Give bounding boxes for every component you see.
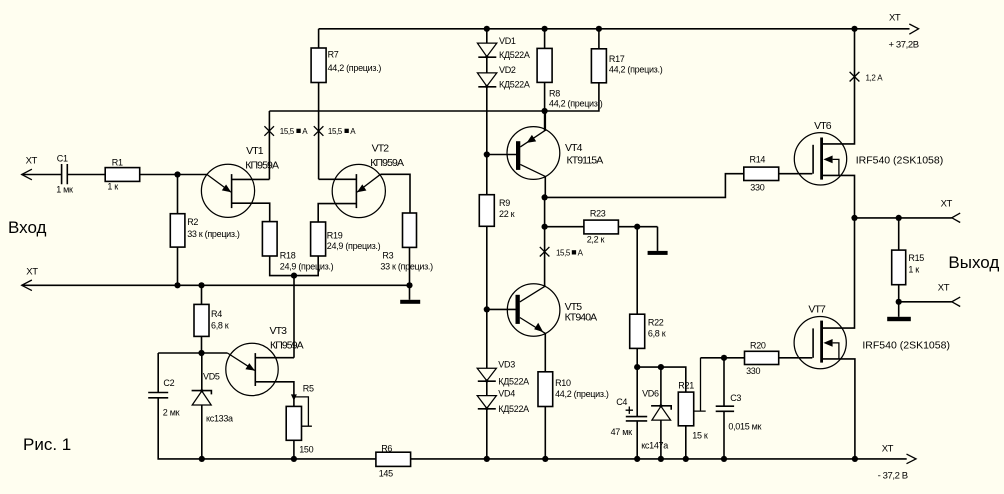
wire output xyxy=(855,217,952,219)
wire VD2 to VT4 base xyxy=(486,87,488,195)
resistor R21 xyxy=(678,392,693,426)
diode VD3 xyxy=(477,368,496,381)
svg-text:15,5: 15,5 xyxy=(556,249,571,258)
svg-text:VD1: VD1 xyxy=(499,36,516,46)
ground mid xyxy=(657,227,659,251)
svg-text:24,9 (прециз.): 24,9 (прециз.) xyxy=(280,262,334,272)
node R10-rail xyxy=(542,456,548,462)
resistor R14 xyxy=(744,167,779,180)
node R8-wire111 xyxy=(542,108,548,114)
wire R20 to VT7 gate xyxy=(779,357,813,359)
svg-text:VT2: VT2 xyxy=(372,143,390,155)
wire R7 top xyxy=(318,29,320,48)
svg-text:IRF540 (2SK1058): IRF540 (2SK1058) xyxy=(856,155,944,167)
svg-text:Рис. 1: Рис. 1 xyxy=(23,435,71,454)
svg-text:15,5: 15,5 xyxy=(280,127,295,136)
wire mid to VT3 drain xyxy=(293,276,295,358)
node R4-VT3gate xyxy=(198,350,204,356)
node VD6-rail xyxy=(658,456,664,462)
transistor VT3 KP959A xyxy=(226,343,278,395)
node VT4 collector xyxy=(542,194,548,200)
XT terminal +37V arrow xyxy=(909,24,918,34)
wire VT1 drain riser xyxy=(268,111,270,179)
resistor R22 xyxy=(630,314,645,348)
XT output fork bottom xyxy=(952,297,960,306)
svg-text:24,9 (прециз.): 24,9 (прециз.) xyxy=(327,241,381,251)
XT lower input arrow xyxy=(22,280,32,291)
svg-text:VT6: VT6 xyxy=(814,120,832,132)
svg-text:C1: C1 xyxy=(57,154,68,164)
node rail-R17 xyxy=(596,26,602,32)
svg-text:R23: R23 xyxy=(590,209,606,219)
svg-text:XT: XT xyxy=(941,199,953,210)
svg-text:Выход: Выход xyxy=(948,253,999,272)
svg-text:150: 150 xyxy=(299,444,313,454)
measure point x VT1 xyxy=(264,126,274,136)
node C3-rail xyxy=(721,456,727,462)
svg-text:- 37,2 В: - 37,2 В xyxy=(878,471,908,482)
wire VD3-VD4 xyxy=(486,381,488,395)
resistor R8 xyxy=(544,29,546,49)
wire R18/R19 bottoms U xyxy=(270,256,319,276)
wire output lower xyxy=(899,301,952,303)
capacitor C3 xyxy=(723,358,725,406)
node R23 left xyxy=(542,224,548,230)
svg-text:Вход: Вход xyxy=(8,218,47,237)
wire +37V top rail xyxy=(319,28,910,30)
node R15 top xyxy=(896,215,902,221)
node R1-R2 xyxy=(174,171,180,177)
svg-text:R8: R8 xyxy=(549,89,560,99)
svg-text:XT: XT xyxy=(889,12,901,23)
resistor R4 xyxy=(201,285,203,304)
diode VD2 xyxy=(477,73,496,86)
svg-text:R6: R6 xyxy=(381,444,392,454)
svg-text:C4: C4 xyxy=(616,397,627,407)
svg-text:VD3: VD3 xyxy=(498,360,515,370)
node R18R19 mid xyxy=(291,273,297,279)
wire R17 bottom to wire111 xyxy=(269,83,599,111)
svg-text:330: 330 xyxy=(750,183,764,193)
node VT7 source rail xyxy=(852,456,858,462)
svg-text:1,2 А: 1,2 А xyxy=(866,74,884,83)
wire R22 top xyxy=(636,227,638,315)
svg-text:XT: XT xyxy=(938,282,950,293)
node rail-R8 xyxy=(542,26,548,32)
svg-text:R15: R15 xyxy=(908,253,924,263)
node VD5-rail xyxy=(199,456,205,462)
svg-text:44,2 (прециз.): 44,2 (прециз.) xyxy=(549,99,603,109)
node R3-bus xyxy=(406,282,412,288)
svg-text:XT: XT xyxy=(26,267,38,278)
resistor R6 xyxy=(376,452,411,466)
svg-text:145: 145 xyxy=(379,469,393,479)
XT output fork top xyxy=(952,213,960,222)
svg-text:33 к (прециз.): 33 к (прециз.) xyxy=(187,229,240,239)
node R5-rail xyxy=(291,456,297,462)
svg-text:33 к (прециз.): 33 к (прециз.) xyxy=(380,262,433,272)
resistor R15 xyxy=(898,218,900,250)
svg-text:VD6: VD6 xyxy=(642,388,659,398)
svg-text:XT: XT xyxy=(882,443,894,454)
wire R8 bottom xyxy=(544,82,546,130)
node R2-bus xyxy=(174,282,180,288)
wire R14 to VT6 gate xyxy=(779,173,813,175)
resistor R2 xyxy=(177,175,179,214)
svg-text:КП959А: КП959А xyxy=(370,157,404,169)
wire bottom rail xyxy=(376,458,907,460)
node output top xyxy=(851,215,857,221)
wire R7 to VT2 drain xyxy=(318,83,320,180)
svg-text:15 к: 15 к xyxy=(692,431,708,441)
svg-text:C3: C3 xyxy=(730,393,741,403)
svg-text:R14: R14 xyxy=(750,155,766,165)
measure point x VT2 xyxy=(314,126,324,136)
resistor R20 xyxy=(745,351,779,364)
svg-text:R19: R19 xyxy=(327,231,343,241)
trimmer R5 wiper arrow xyxy=(291,394,297,400)
resistor R3 xyxy=(403,213,417,247)
diode VD1 xyxy=(477,43,496,57)
wire to R21 xyxy=(637,367,686,392)
svg-text:VT7: VT7 xyxy=(808,303,826,315)
capacitor C4 xyxy=(626,417,647,421)
transistor VT2 KP959A xyxy=(332,164,385,217)
svg-text:R2: R2 xyxy=(187,217,198,227)
node VT4 base xyxy=(484,151,490,157)
svg-text:0,015 мк: 0,015 мк xyxy=(728,422,761,432)
wire collector row to R14 riser xyxy=(545,174,744,198)
svg-text:КП959А: КП959А xyxy=(245,160,279,172)
svg-text:КТ9115А: КТ9115А xyxy=(567,155,604,167)
svg-text:кс147а: кс147а xyxy=(641,441,668,451)
svg-text:КП959А: КП959А xyxy=(270,340,304,352)
svg-text:КД522А: КД522А xyxy=(499,80,530,90)
wire VT4c down xyxy=(544,197,546,285)
svg-text:330: 330 xyxy=(746,366,760,376)
resistor R7 xyxy=(311,48,326,83)
svg-text:2 мк: 2 мк xyxy=(163,408,180,418)
resistor R5 xyxy=(286,406,301,440)
zener VD5 ks133a xyxy=(201,353,203,390)
svg-text:IRF540 (2SK1058): IRF540 (2SK1058) xyxy=(862,339,950,351)
svg-text:VT1: VT1 xyxy=(246,145,264,157)
wire C1 to R1 xyxy=(67,174,105,176)
wire C2 branch xyxy=(158,352,227,354)
svg-text:15,5: 15,5 xyxy=(328,127,343,136)
node rail-VD1 xyxy=(484,26,490,32)
resistor R17 xyxy=(598,29,600,49)
node VD6 top xyxy=(658,364,664,370)
resistor R18 xyxy=(262,222,277,256)
wire ground bus input xyxy=(22,284,410,286)
ground R3 xyxy=(409,285,411,300)
transistor VT5 KT940A xyxy=(507,284,560,337)
svg-text:R3: R3 xyxy=(382,251,393,261)
wire VD4 to rail xyxy=(486,409,488,459)
transistor VT1 KP959A xyxy=(201,164,254,217)
svg-text:1 мк: 1 мк xyxy=(56,185,73,195)
node VD4-rail xyxy=(484,456,490,462)
svg-text:VT4: VT4 xyxy=(565,142,583,154)
node R23-R22 xyxy=(634,224,640,230)
svg-text:R18: R18 xyxy=(280,251,296,261)
svg-text:КТ940А: КТ940А xyxy=(565,312,598,324)
wire base to VD3 xyxy=(486,309,488,368)
svg-text:КД522А: КД522А xyxy=(498,377,529,387)
svg-text:кс133а: кс133а xyxy=(206,413,233,423)
svg-text:R10: R10 xyxy=(555,378,571,388)
node R22-C4 xyxy=(634,364,640,370)
svg-text:R1: R1 xyxy=(112,158,123,168)
svg-text:47 мк: 47 мк xyxy=(611,427,632,437)
wire R9 to VT5 base xyxy=(486,226,488,309)
svg-text:6,8 к: 6,8 к xyxy=(211,321,229,331)
transistor VT4 KT9115A xyxy=(507,127,560,180)
svg-text:6,8 к: 6,8 к xyxy=(648,329,666,339)
resistor R10 xyxy=(538,372,553,407)
transistor VT7 IRF540 xyxy=(794,317,846,369)
resistor R1 xyxy=(105,168,140,182)
node VT5 base xyxy=(484,306,490,312)
svg-text:КД522А: КД522А xyxy=(499,50,530,60)
svg-text:VD2: VD2 xyxy=(499,65,516,75)
svg-text:VD5: VD5 xyxy=(203,372,220,382)
svg-text:VT3: VT3 xyxy=(270,325,288,337)
svg-text:R17: R17 xyxy=(609,54,625,64)
capacitor C2 xyxy=(148,393,168,398)
XT -37V arrow xyxy=(907,454,917,464)
node R21-rail xyxy=(683,456,689,462)
transistor VT6 IRF540 xyxy=(794,133,846,185)
wire input to C1 xyxy=(22,174,61,176)
wire VT2 gate to R3 xyxy=(381,174,411,213)
resistor R9 xyxy=(479,195,494,227)
svg-text:R9: R9 xyxy=(499,198,510,208)
node R4-bus xyxy=(198,282,204,288)
svg-text:VD4: VD4 xyxy=(498,389,515,399)
svg-text:R22: R22 xyxy=(648,318,664,328)
svg-text:44,2 (прециз.): 44,2 (прециз.) xyxy=(328,63,382,73)
wire VD1-VD2 xyxy=(486,57,488,73)
svg-text:R5: R5 xyxy=(303,384,314,394)
svg-text:1 к: 1 к xyxy=(908,265,919,275)
wire R1 to VT1 gate xyxy=(140,174,207,176)
resistor R19 xyxy=(311,222,326,256)
svg-text:1 к: 1 к xyxy=(107,182,118,192)
node R15 bottom xyxy=(896,299,902,305)
svg-text:22 к: 22 к xyxy=(499,209,515,219)
XT input terminal arrow xyxy=(22,169,32,180)
diode VD4 xyxy=(477,396,496,409)
svg-text:XT: XT xyxy=(26,156,38,167)
measure point x 1.2A xyxy=(850,72,860,82)
svg-text:44,2 (прециз.): 44,2 (прециз.) xyxy=(609,65,663,75)
svg-text:+ 37,2В: + 37,2В xyxy=(889,40,919,51)
zener VD6 ks147a xyxy=(660,367,662,406)
svg-text:44,2 (прециз.): 44,2 (прециз.) xyxy=(555,389,609,399)
resistor R23 xyxy=(545,226,584,228)
svg-text:2,2 к: 2,2 к xyxy=(587,235,605,245)
svg-text:R4: R4 xyxy=(211,309,222,319)
ground output xyxy=(898,302,900,317)
node C4-rail xyxy=(634,456,640,462)
node C3 top xyxy=(721,355,727,361)
svg-text:R21: R21 xyxy=(678,380,694,390)
wire output node to VT7 drain xyxy=(823,218,855,328)
node rail-VT6 xyxy=(851,26,857,32)
wire VD string top xyxy=(486,29,488,43)
measure point x 15.5mA mid xyxy=(540,247,550,257)
capacitor C1 xyxy=(62,164,68,184)
svg-text:R20: R20 xyxy=(750,340,766,350)
svg-text:C2: C2 xyxy=(163,378,174,388)
svg-text:R7: R7 xyxy=(328,50,339,60)
svg-text:КД522А: КД522А xyxy=(498,404,529,414)
trimmer R21 wiper xyxy=(694,358,706,411)
